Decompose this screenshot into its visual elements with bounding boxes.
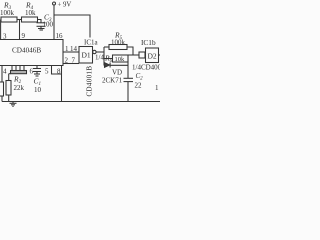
svg-text:10: 10 [34, 86, 42, 94]
svg-text:10k: 10k [115, 56, 126, 63]
svg-text:D2: D2 [148, 52, 157, 61]
trimmer network pins 11/12 [9, 66, 27, 81]
capacitor C3 [37, 23, 46, 29]
wire pin 4 [1, 66, 3, 83]
svg-text:10k: 10k [25, 9, 36, 17]
wire pin1 to gate D1 input [63, 51, 79, 53]
svg-text:4: 4 [3, 68, 7, 76]
wire pin 8 to ground rail [61, 66, 63, 102]
wire D1 output to node A [96, 51, 104, 53]
svg-text:14: 14 [70, 45, 78, 53]
svg-text:22: 22 [135, 82, 143, 90]
svg-text:100k: 100k [0, 9, 15, 17]
svg-text:CD4001B: CD4001B [86, 66, 94, 97]
svg-text:1: 1 [155, 84, 159, 92]
resistor R2 22k [6, 81, 11, 102]
wire R5 to D2 input [127, 47, 133, 55]
wire node A to R5 [104, 46, 109, 48]
node B vertical [127, 55, 129, 78]
wire R4 to C3 [38, 20, 42, 23]
IC CD4046B [0, 40, 63, 66]
svg-text:D1: D1 [82, 51, 91, 60]
svg-text:6: 6 [30, 68, 34, 76]
svg-text:IC1b: IC1b [141, 38, 156, 47]
resistor R1 (clipped at edge) [0, 82, 4, 102]
diode VD [105, 63, 111, 68]
resistor R6 [104, 55, 128, 62]
svg-text:22k: 22k [14, 84, 25, 92]
wire pin 5 [52, 66, 62, 75]
power +9V terminal [53, 2, 56, 40]
svg-text:+ 9V: + 9V [58, 2, 72, 9]
svg-text:5: 5 [45, 68, 49, 76]
svg-text:C2: C2 [136, 72, 144, 82]
svg-text:2: 2 [65, 57, 69, 65]
svg-text:100: 100 [43, 21, 54, 29]
ground rail [2, 101, 160, 103]
node R3/R4 junction, wire to pin 9 [19, 20, 21, 40]
wire pin2 to gate D1 input [63, 63, 79, 65]
ground symbol [10, 102, 17, 107]
wire diode to node B [110, 64, 128, 66]
svg-text:7: 7 [72, 57, 76, 65]
svg-text:100k: 100k [111, 39, 126, 47]
svg-text:9: 9 [22, 32, 26, 40]
svg-text:1/4: 1/4 [95, 54, 104, 62]
node A vertical [103, 47, 105, 66]
gate IC1b D2 input connector [139, 52, 145, 58]
resistor R5 [109, 45, 127, 50]
gate IC1b D2 [146, 48, 161, 63]
wire +9V branch to IC1a pin14 [54, 15, 90, 38]
resistor R3 [1, 17, 17, 22]
capacitor C2 [124, 78, 134, 101]
svg-text:2CK71: 2CK71 [102, 77, 123, 85]
svg-text:IC1a: IC1a [84, 39, 99, 47]
svg-text:1/4CD4001B: 1/4CD4001B [132, 64, 160, 72]
svg-text:3: 3 [3, 33, 7, 41]
svg-text:R6: R6 [104, 54, 113, 65]
wire R3-R4 [17, 19, 22, 21]
capacitor C1 [33, 66, 41, 75]
svg-text:VD: VD [112, 69, 122, 77]
svg-text:CD4046B: CD4046B [12, 47, 41, 55]
resistor R4 [22, 17, 38, 22]
gate IC1a D1 [79, 47, 96, 64]
svg-text:1: 1 [65, 45, 69, 53]
ground (C3) [38, 29, 45, 31]
wire pin 3 [0, 20, 2, 40]
svg-text:8: 8 [57, 68, 61, 76]
ground (C1) [34, 74, 40, 76]
wire node B to D2 input [128, 54, 139, 56]
svg-text:16: 16 [56, 32, 64, 40]
